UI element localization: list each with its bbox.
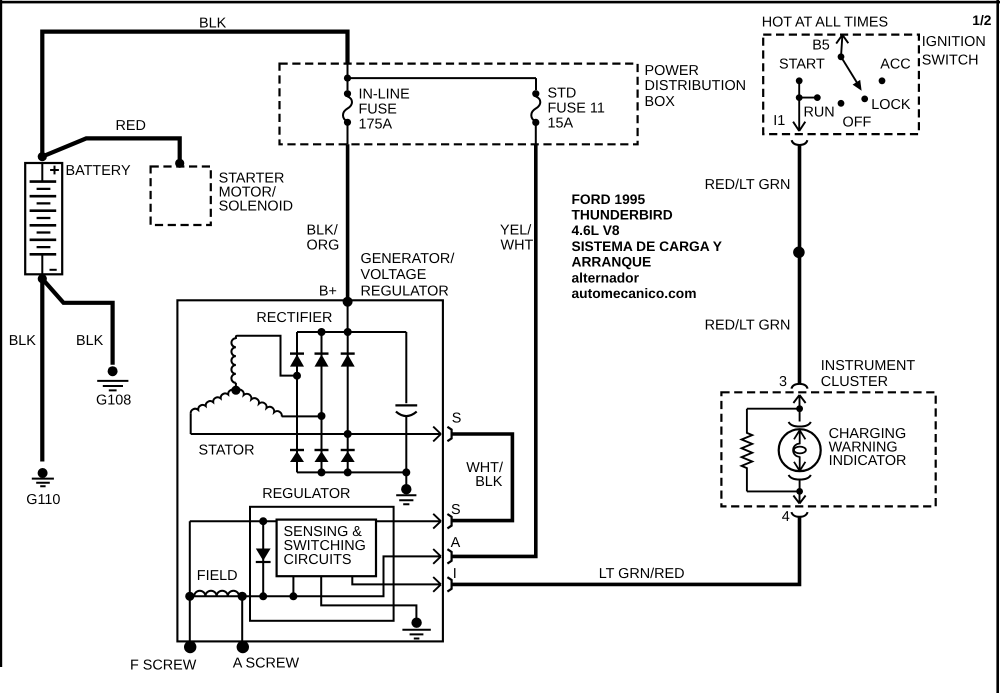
node lamp top junction: [796, 405, 803, 412]
wire rectifier top bus: [297, 331, 406, 333]
lamp charging warning indicator: [779, 429, 821, 471]
svg-text:SISTEMA DE CARGA Y: SISTEMA DE CARGA Y: [572, 239, 723, 254]
svg-text:BOX: BOX: [645, 94, 676, 110]
svg-text:automecanico.com: automecanico.com: [572, 286, 697, 301]
wire left vertical to F screw: [189, 521, 191, 643]
svg-text:RECTIFIER: RECTIFIER: [256, 310, 332, 326]
wire B5 arrow up: [836, 35, 848, 57]
wire pin 3 arrow into cluster: [793, 395, 805, 409]
label IGNITION SWITCH: [922, 34, 986, 69]
svg-text:B5: B5: [812, 38, 830, 54]
diode D6: [341, 450, 355, 462]
svg-text:HOT AT ALL TIMES: HOT AT ALL TIMES: [762, 15, 888, 31]
wire sensing pin to I terminal: [352, 576, 441, 584]
ground regulator: [402, 618, 430, 639]
diode D1: [290, 354, 304, 367]
svg-text:OFF: OFF: [843, 114, 872, 130]
node phase B junction: [293, 372, 301, 380]
inductor field coil: [194, 591, 239, 597]
arrow S terminal top: [433, 427, 441, 442]
svg-text:CIRCUITS: CIRCUITS: [284, 552, 352, 568]
svg-text:FUSE: FUSE: [359, 101, 397, 117]
node OFF: [838, 100, 845, 107]
svg-text:15A: 15A: [548, 115, 574, 131]
capacitor C1: [395, 332, 417, 472]
wire WHT/BLK loop S to S: [453, 434, 513, 521]
node stator star point: [231, 386, 240, 395]
stator phase C winding left: [191, 390, 236, 414]
wire BLK battery to G110: [40, 279, 44, 462]
node bottom bus junction 1: [318, 468, 326, 476]
svg-text:RED: RED: [116, 118, 146, 134]
label CHARGING WARNING INDICATOR: [829, 426, 907, 469]
node phase C junction: [344, 430, 352, 438]
node A screw: [237, 641, 249, 653]
node starter terminal: [175, 159, 184, 168]
node top bus junction 1: [318, 328, 326, 336]
svg-text:FUSE 11: FUSE 11: [548, 100, 605, 116]
wire B+ into rectifier: [347, 302, 349, 332]
diode D5: [315, 450, 329, 462]
svg-text:STD: STD: [548, 85, 577, 101]
power distribution box: [280, 64, 638, 145]
wire junction to resistor top: [747, 408, 797, 410]
connector pin S lower: [447, 514, 451, 528]
node fuse feed junction: [344, 75, 351, 82]
wire LT GRN/RED I terminal to cluster: [453, 517, 800, 584]
node ACC: [879, 77, 886, 84]
svg-text:BLK: BLK: [76, 333, 104, 349]
svg-text:IGNITION: IGNITION: [922, 34, 986, 50]
node splice RED/LT GRN: [793, 247, 805, 259]
wire BLK/ORG fuse to generator B+: [346, 144, 350, 301]
sensing and switching circuits box: [277, 520, 376, 577]
svg-text:THUNDERBIRD: THUNDERBIRD: [572, 208, 673, 223]
svg-text:BATTERY: BATTERY: [66, 163, 131, 179]
svg-text:STATOR: STATOR: [199, 442, 255, 458]
svg-text:INSTRUMENT: INSTRUMENT: [821, 358, 916, 374]
wire S sense line: [190, 520, 441, 522]
svg-text:IN-LINE: IN-LINE: [359, 86, 410, 102]
svg-text:1/2: 1/2: [972, 13, 992, 28]
wire coil bottom to star point: [235, 383, 237, 390]
wire rectifier legs: [297, 332, 348, 472]
node LOCK: [861, 96, 868, 103]
stator phase B coil: [231, 338, 236, 382]
connector lamp socket top: [789, 422, 811, 427]
svg-text:B+: B+: [319, 284, 337, 300]
label IN-LINE FUSE 175A: [359, 86, 410, 132]
node bottom bus junction 2: [344, 468, 352, 476]
ground G108: [97, 366, 128, 390]
svg-text:WHT: WHT: [501, 237, 534, 253]
fuse F2 STD FUSE 11 15A: [531, 90, 540, 145]
svg-text:START: START: [779, 57, 825, 73]
svg-text:GENERATOR/: GENERATOR/: [361, 251, 455, 267]
label INSTRUMENT CLUSTER: [821, 358, 916, 390]
svg-text:LT GRN/RED: LT GRN/RED: [599, 566, 685, 582]
svg-text:G108: G108: [96, 393, 131, 409]
connector pin I: [447, 577, 451, 591]
node rail sensing pin: [289, 592, 297, 600]
svg-text:INDICATOR: INDICATOR: [829, 453, 907, 469]
wire RED battery to starter: [42, 138, 179, 163]
wire A screw vertical: [241, 596, 243, 643]
svg-text:FORD 1995: FORD 1995: [572, 192, 646, 207]
fuse F1 IN-LINE FUSE 175A: [343, 90, 352, 144]
node battery positive terminal: [38, 152, 47, 161]
wire rectifier bottom bus: [297, 471, 406, 473]
node top bus junction 2: [344, 328, 352, 336]
label WHT/BLK: [466, 460, 503, 490]
regulator box: [250, 507, 394, 621]
wire RED/LT GRN ignition to cluster: [798, 145, 802, 384]
wire START to RUN and I1: [793, 81, 817, 131]
label BLK/ORG: [307, 222, 340, 253]
svg-text:RUN: RUN: [804, 104, 835, 120]
connector pin 4: [791, 512, 807, 517]
wire phase C down: [190, 414, 192, 434]
svg-text:SWITCH: SWITCH: [922, 53, 979, 69]
svg-text:LOCK: LOCK: [871, 97, 911, 113]
node lamp bottom junction: [796, 488, 803, 495]
connector lamp socket bottom: [789, 475, 811, 480]
svg-text:ORG: ORG: [307, 237, 340, 253]
diode D2: [315, 354, 329, 367]
ignition switch box: [763, 35, 919, 135]
connector pin A: [447, 549, 451, 563]
svg-text:RED/LT GRN: RED/LT GRN: [705, 177, 791, 193]
wire pin 4 arrow: [793, 491, 805, 503]
svg-text:REGULATOR: REGULATOR: [361, 283, 449, 299]
resistor R1: [742, 409, 753, 492]
svg-text:RED/LT GRN: RED/LT GRN: [705, 317, 791, 333]
svg-text:I1: I1: [773, 113, 785, 129]
arrow S terminal lower: [433, 514, 441, 529]
node rail field right: [238, 592, 247, 601]
label STD FUSE 11 15A: [548, 85, 605, 131]
svg-text:YEL/: YEL/: [500, 222, 531, 238]
node bottom bus junction 3: [402, 468, 410, 476]
svg-text:alternador: alternador: [572, 270, 640, 285]
stator phase A winding right: [236, 390, 282, 417]
diode D3: [341, 354, 355, 367]
svg-text:A SCREW: A SCREW: [233, 655, 300, 671]
svg-text:BLK: BLK: [475, 474, 503, 490]
svg-text:BLK: BLK: [9, 333, 37, 349]
node rail diode: [259, 592, 267, 600]
wire socket to bottom junction: [799, 480, 801, 492]
svg-text:FIELD: FIELD: [197, 568, 238, 584]
ground rectifier: [396, 472, 416, 504]
wire phase A to middle leg: [282, 415, 322, 417]
svg-text:BLK/: BLK/: [307, 222, 338, 238]
node rail field left: [185, 592, 194, 601]
wire field rail to A terminal: [190, 556, 441, 596]
wire resistor bottom: [747, 490, 797, 492]
svg-text:F SCREW: F SCREW: [130, 657, 197, 673]
svg-text:4: 4: [782, 509, 790, 525]
svg-text:VOLTAGE: VOLTAGE: [361, 267, 427, 283]
wire junction to lamp socket: [799, 409, 801, 422]
node battery negative terminal: [38, 274, 47, 283]
svg-text:G110: G110: [26, 492, 60, 508]
svg-text:DISTRIBUTION: DISTRIBUTION: [645, 78, 747, 94]
wire phase B to left leg: [236, 336, 297, 376]
arrow A terminal: [433, 549, 441, 564]
battery BATTERY: [25, 163, 62, 274]
node RUN: [814, 94, 821, 101]
ground G110: [32, 468, 54, 486]
svg-text:S: S: [452, 411, 462, 427]
wire inside power box: [348, 64, 537, 91]
node phase A junction: [318, 412, 326, 420]
instrument cluster box: [721, 392, 935, 506]
node START junction: [796, 94, 803, 101]
label YEL/WHT: [500, 222, 533, 253]
connector pin 3: [791, 384, 807, 389]
svg-text:175A: 175A: [359, 116, 393, 132]
label GENERATOR/VOLTAGE REGULATOR: [361, 251, 455, 299]
wire YEL/WHT fuse to A terminal: [453, 145, 536, 557]
svg-text:BLK: BLK: [199, 16, 227, 32]
svg-text:A: A: [451, 535, 461, 551]
node B5: [838, 53, 845, 60]
svg-text:CLUSTER: CLUSTER: [821, 374, 888, 390]
svg-text:S: S: [451, 502, 461, 518]
wire sensing pin to rail: [292, 576, 294, 596]
label SENSING & SWITCHING CIRCUITS: [284, 524, 366, 568]
svg-text:3: 3: [779, 374, 787, 390]
connector pin S top: [447, 427, 451, 441]
svg-text:ARRANQUE: ARRANQUE: [572, 255, 652, 270]
node B+: [343, 297, 353, 307]
svg-text:REGULATOR: REGULATOR: [262, 486, 350, 502]
label POWER DISTRIBUTION BOX: [645, 63, 747, 110]
wire sensing pin to ground: [321, 576, 416, 618]
wire phase C to S terminal: [191, 433, 441, 435]
starter motor solenoid box: [151, 167, 211, 226]
svg-text:POWER: POWER: [645, 63, 699, 79]
arrow I terminal: [433, 577, 441, 592]
generator/voltage regulator box: [177, 300, 443, 641]
switch wiper B5 to LOCK: [841, 57, 860, 87]
svg-text:I: I: [453, 566, 457, 582]
svg-text:4.6L V8: 4.6L V8: [572, 223, 620, 238]
label STARTER MOTOR/SOLENOID: [219, 170, 293, 214]
svg-text:ACC: ACC: [880, 57, 910, 73]
svg-text:SOLENOID: SOLENOID: [219, 198, 293, 214]
node sense junction: [259, 517, 267, 525]
connector I1: [792, 140, 808, 145]
wire BLK battery to G108: [42, 279, 112, 365]
diode D7 regulator: [256, 521, 271, 596]
diode D4: [290, 450, 304, 462]
label FORD 1995 block: [572, 192, 723, 301]
node F screw: [184, 641, 196, 653]
node START: [796, 77, 803, 84]
wire BLK battery to power box: [42, 32, 347, 160]
